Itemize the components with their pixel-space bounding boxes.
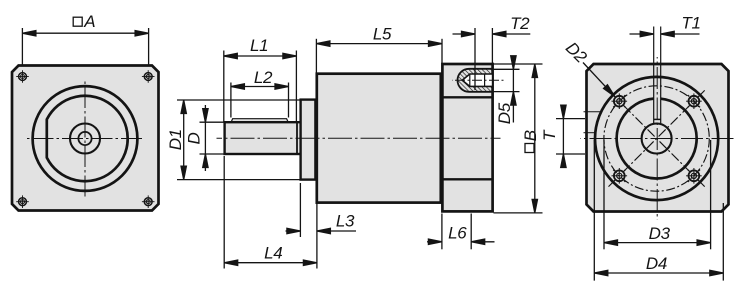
right view vertical centerline <box>656 57 658 220</box>
dimension D3 <box>604 140 711 249</box>
dimension B <box>494 64 543 213</box>
keyway slot top <box>654 118 661 120</box>
drill cone base line <box>469 74 471 86</box>
left view hub circle <box>70 124 100 154</box>
dimension L1 <box>224 36 297 122</box>
dimension T1 <box>630 14 701 37</box>
svg-text:A: A <box>83 12 95 31</box>
right view plate <box>587 64 729 212</box>
dimension L4 <box>224 156 317 269</box>
middle view centerline <box>217 137 501 139</box>
dimension D4 <box>594 140 723 281</box>
right view diagonal centerline 2 <box>609 90 705 186</box>
tapped hole thread outline <box>458 69 493 92</box>
thread end line <box>484 74 486 86</box>
svg-text:T2: T2 <box>510 14 530 33</box>
keyway slot right side / T1 extension <box>660 27 662 124</box>
corner screw bottom-right <box>142 195 155 208</box>
keyway slot left side / T1 extension <box>653 27 655 125</box>
right view boss circle with slot gap <box>617 99 697 179</box>
svg-text:L2: L2 <box>254 68 273 87</box>
svg-text:D2: D2 <box>562 38 591 67</box>
corner screw top-left <box>16 70 29 83</box>
svg-text:L3: L3 <box>336 211 355 230</box>
dimension L2 <box>231 68 289 117</box>
collar <box>301 100 316 180</box>
shaft key <box>231 119 289 123</box>
right view bore circle <box>642 124 672 154</box>
left view horizontal centerline <box>26 138 144 140</box>
right view horizontal centerline <box>581 138 736 140</box>
shaft <box>225 122 301 154</box>
tapped hole centerline <box>452 79 504 81</box>
right view outer circle <box>595 77 718 200</box>
svg-text:T: T <box>540 129 559 141</box>
shaft end line <box>296 122 298 154</box>
left view middle circle with flat <box>47 96 128 181</box>
dimension D <box>184 105 224 171</box>
dimension L5 <box>316 25 442 74</box>
thread hole top-left <box>612 93 628 109</box>
body <box>317 74 441 203</box>
left view vertical centerline <box>84 79 86 199</box>
svg-text:L1: L1 <box>250 36 268 55</box>
dimension T2 <box>453 14 531 90</box>
svg-text:L4: L4 <box>264 244 282 263</box>
dimension A <box>22 12 148 65</box>
bolt circle <box>604 86 709 191</box>
svg-text:D: D <box>184 132 203 144</box>
thread hole bottom-right <box>686 168 702 184</box>
dimension D1 <box>166 100 301 180</box>
left view outer circle <box>33 86 138 191</box>
right view diagonal centerline 1 <box>609 90 705 186</box>
left view bore circle <box>78 132 91 145</box>
flange division line upper <box>442 96 492 98</box>
dimension D5 <box>494 56 520 124</box>
thread hole bottom-left <box>612 168 628 184</box>
svg-text:D1: D1 <box>166 129 185 150</box>
svg-text:D3: D3 <box>649 224 671 243</box>
tapped hole drilled bore <box>462 74 492 86</box>
svg-text:B: B <box>521 130 540 141</box>
dimension D2 leader <box>562 38 617 98</box>
svg-text:D5: D5 <box>495 102 514 124</box>
svg-text:L5: L5 <box>373 25 392 44</box>
left view plate <box>12 66 159 211</box>
dimension L6 <box>427 214 495 250</box>
flange side view <box>442 64 492 211</box>
svg-text:D4: D4 <box>646 254 667 273</box>
svg-text:L6: L6 <box>448 223 467 242</box>
dimension T <box>540 105 585 168</box>
flange division line lower <box>442 178 492 180</box>
thread hole top-right <box>686 93 702 109</box>
corner screw top-right <box>142 70 155 83</box>
dimension L3 <box>286 183 357 269</box>
svg-text:T1: T1 <box>681 14 700 33</box>
corner screw bottom-left <box>16 195 29 208</box>
left edge stub upper <box>584 111 602 113</box>
left edge stub lower <box>584 132 596 134</box>
